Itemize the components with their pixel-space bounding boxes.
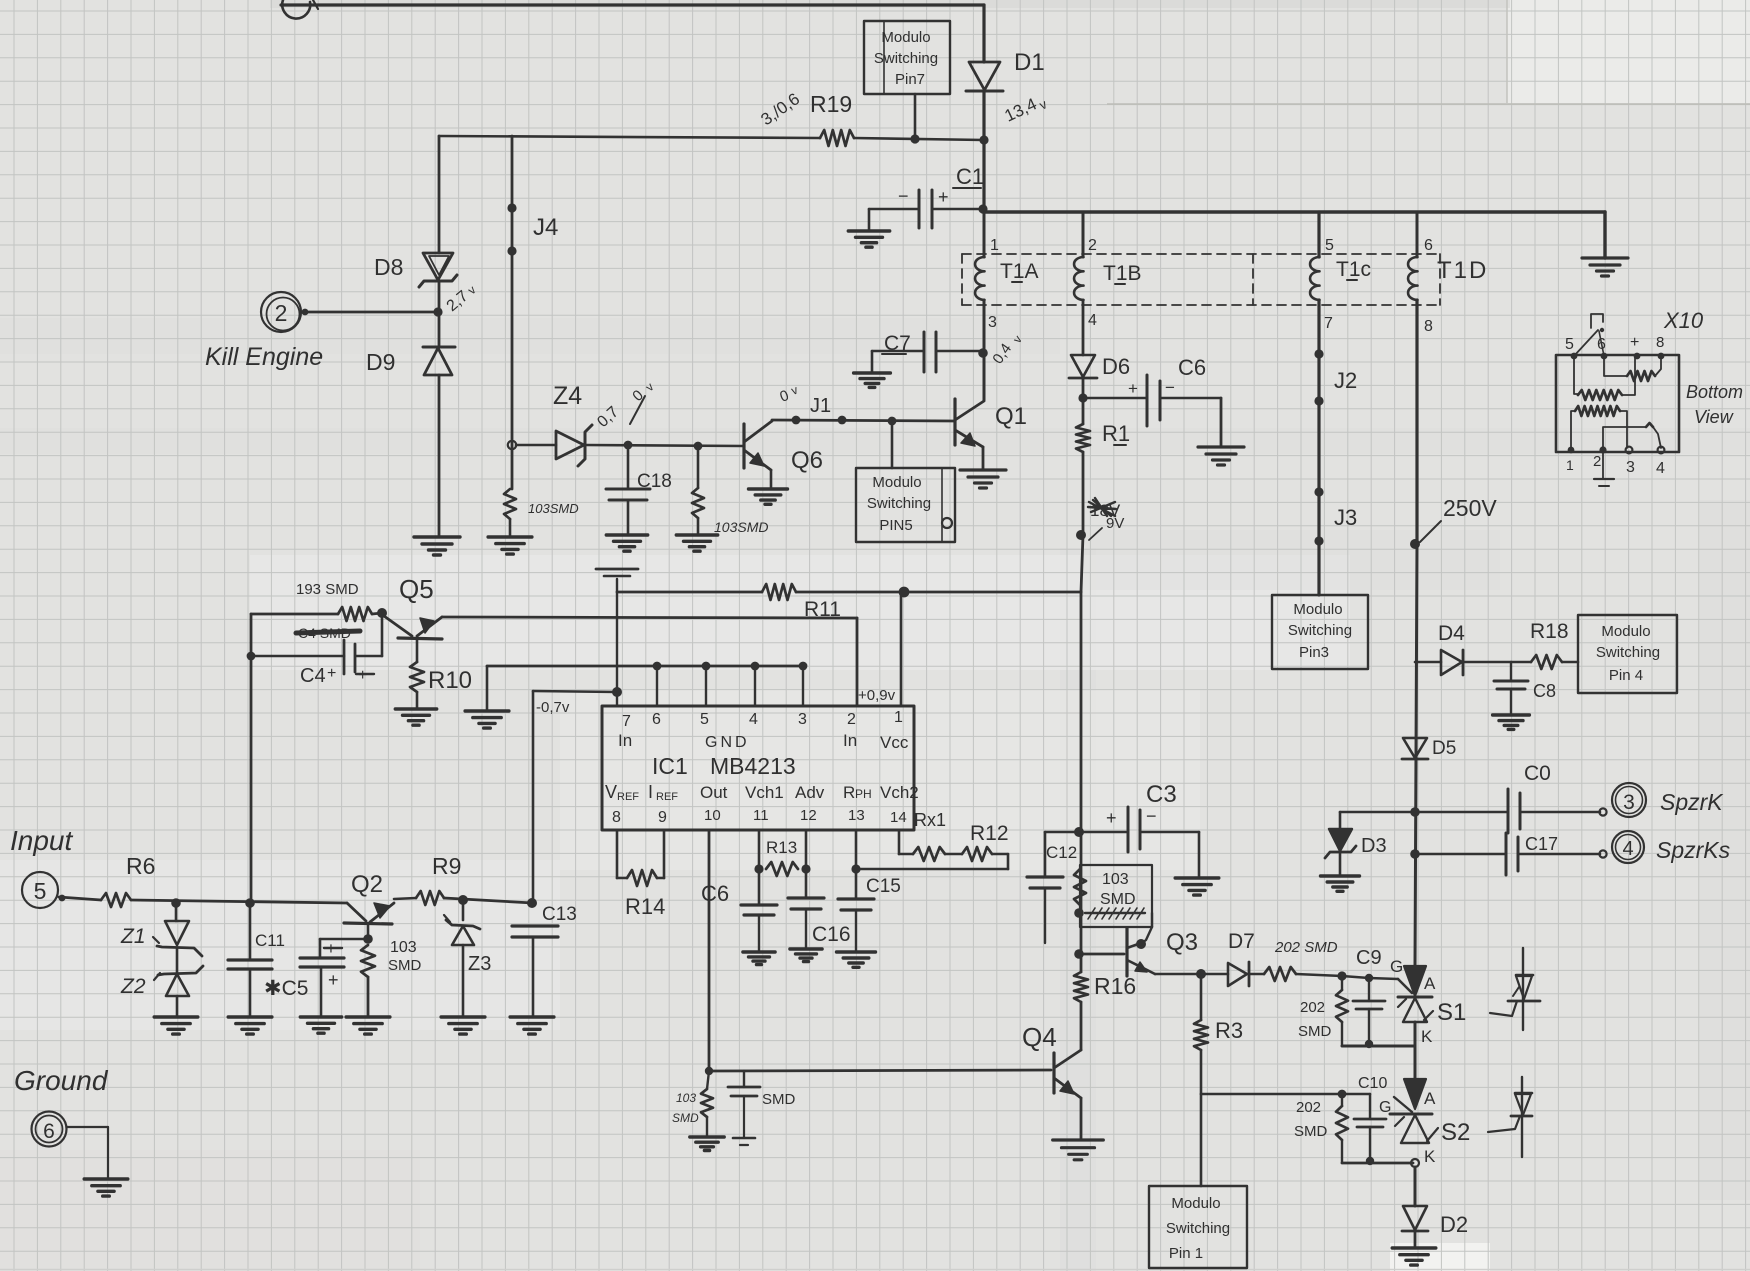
svg-text:C16: C16 — [812, 923, 851, 946]
svg-text:C13: C13 — [542, 904, 577, 925]
resistor R10 — [416, 639, 419, 662]
wire J1 to PIN5 box — [891, 421, 894, 468]
node J2 a — [1314, 349, 1323, 358]
wire bus to pin5 — [705, 666, 707, 706]
diode D6 — [1071, 355, 1095, 377]
capacitor C3 (polarized) — [1079, 831, 1126, 834]
svg-text:Switching: Switching — [867, 495, 931, 512]
svg-text:Q5: Q5 — [399, 574, 434, 604]
svg-text:IC1: IC1 — [652, 753, 688, 779]
wire pin11 stub — [758, 831, 761, 905]
svg-text:T1c: T1c — [1336, 258, 1371, 281]
wire -0,7v — [533, 691, 617, 692]
ground (C16 a) — [743, 952, 775, 965]
svg-text:T1D: T1D — [1437, 257, 1488, 284]
ground (Q2) — [346, 1017, 390, 1034]
node C17 wire — [1410, 849, 1420, 859]
svg-text:C10: C10 — [1358, 1075, 1387, 1092]
ground (Z1/Z2) — [154, 1017, 198, 1034]
svg-text:✱C5: ✱C5 — [264, 977, 308, 1000]
node pin12 — [801, 864, 810, 873]
wire S2 bottom — [1342, 1162, 1413, 1165]
box Modulo Switching Pin7 — [864, 21, 950, 94]
resistor 202 SMD (S2) — [1336, 1106, 1348, 1140]
svg-text:C12: C12 — [1046, 843, 1077, 862]
ground small (R11 corner) — [596, 568, 638, 571]
potentiometer hatched (103 SMD) — [1085, 912, 1145, 914]
svg-text:2: 2 — [1088, 237, 1097, 254]
node C4 left — [247, 652, 256, 661]
svg-text:6: 6 — [1424, 237, 1433, 254]
svg-text:Z1: Z1 — [120, 925, 146, 948]
svg-text:R: R — [843, 783, 855, 802]
svg-text:1: 1 — [894, 709, 903, 726]
svg-text:D4: D4 — [1438, 622, 1465, 645]
terminal dot (SpzrK) — [1599, 808, 1606, 815]
transistor Q2 — [347, 903, 366, 921]
svg-text:K: K — [1421, 1027, 1433, 1046]
capacitor C6 (polarized) — [1083, 397, 1146, 400]
wire R11 bus — [617, 591, 762, 594]
svg-text:Q3: Q3 — [1166, 929, 1198, 956]
wire bus end down — [1603, 212, 1606, 258]
svg-text:PIN5: PIN5 — [879, 517, 912, 534]
wire S2 to D2 — [1414, 1167, 1417, 1206]
svg-text:4: 4 — [1088, 312, 1097, 329]
ground small (SMD cap) — [733, 1137, 755, 1140]
node J1 a — [792, 416, 801, 425]
svg-text:C3: C3 — [1146, 781, 1177, 808]
diode D2 — [1403, 1206, 1427, 1230]
svg-text:In: In — [843, 731, 857, 750]
svg-text:−: − — [898, 186, 909, 206]
svg-text:Rx1: Rx1 — [914, 810, 946, 830]
svg-text:103: 103 — [1102, 871, 1129, 888]
svg-text:5: 5 — [34, 878, 47, 904]
svg-text:Vch1: Vch1 — [745, 783, 784, 802]
box Modulo Switching Pin 4 — [1578, 615, 1677, 693]
svg-text:SMD: SMD — [672, 1111, 699, 1125]
svg-text:Q2: Q2 — [351, 871, 383, 898]
wire Q3 base — [1079, 953, 1124, 956]
ground (R10) — [395, 709, 436, 725]
svg-text:Switching: Switching — [1166, 1220, 1230, 1237]
ground (C5) — [300, 1017, 341, 1033]
svg-text:R3: R3 — [1215, 1018, 1243, 1043]
terminal S2 K — [1411, 1159, 1419, 1167]
svg-text:3: 3 — [988, 314, 997, 331]
node R11/Vcc — [899, 587, 910, 598]
node 250V — [1410, 539, 1420, 549]
svg-text:R10: R10 — [428, 667, 472, 694]
wire bus to pin4 — [754, 666, 756, 706]
svg-text:C11: C11 — [255, 931, 285, 950]
node S1 cap bottom — [1365, 1040, 1373, 1048]
svg-text:C6: C6 — [701, 881, 729, 906]
svg-text:7: 7 — [622, 713, 631, 730]
svg-text:+0,9v: +0,9v — [858, 687, 896, 704]
svg-text:Switching: Switching — [1596, 644, 1660, 661]
svg-text:Q1: Q1 — [995, 403, 1027, 430]
box Modulo Switching Pin 1 — [1149, 1186, 1247, 1268]
svg-text:J2: J2 — [1334, 368, 1357, 393]
svg-text:C17: C17 — [1525, 834, 1558, 854]
svg-text:7: 7 — [1324, 315, 1333, 332]
svg-text:S1: S1 — [1437, 999, 1466, 1026]
svg-text:1: 1 — [1566, 457, 1574, 473]
ground (D2) — [1392, 1248, 1436, 1265]
node Z3 top — [458, 895, 468, 905]
svg-text:Pin 1: Pin 1 — [1169, 1245, 1203, 1262]
svg-text:View: View — [1694, 407, 1734, 427]
svg-text:+: + — [1630, 334, 1639, 351]
svg-text:5: 5 — [700, 711, 709, 728]
resistor R14 (pins 8-9) — [616, 831, 619, 878]
svg-text:+: + — [358, 667, 367, 684]
svg-text:A: A — [1424, 1089, 1436, 1108]
svg-text:J3: J3 — [1334, 505, 1357, 530]
resistor R9 — [416, 891, 444, 905]
ground (C18) — [606, 535, 647, 551]
thyristor sketch (lower) — [1521, 1077, 1523, 1157]
wire S2 gate diag — [1394, 1097, 1412, 1112]
wire gnd bus drop — [486, 666, 489, 711]
wire Q5 emitter to IC pin2 — [442, 617, 857, 618]
svg-text:G: G — [1390, 957, 1403, 976]
svg-text:In: In — [618, 731, 632, 750]
svg-text:−: − — [1165, 378, 1175, 397]
wire R12 right — [992, 853, 1008, 856]
junction node D1/C1 column — [979, 135, 988, 144]
svg-text:8: 8 — [1656, 334, 1664, 351]
wire bus to pin3 — [802, 666, 804, 706]
svg-text:D1: D1 — [1014, 49, 1045, 76]
winding X10 b — [1574, 356, 1578, 394]
wire Q2 emitter — [394, 898, 416, 899]
svg-text:Modulo: Modulo — [872, 474, 921, 491]
wire R19 left — [439, 136, 820, 138]
transistor Q6 — [742, 424, 745, 468]
svg-text:Switching: Switching — [1288, 622, 1352, 639]
node J1 b — [838, 416, 847, 425]
ground (C7) — [854, 373, 891, 387]
svg-text:C6: C6 — [1178, 355, 1206, 380]
wire ground terminal — [67, 1126, 108, 1128]
node bus pin5 — [702, 662, 711, 671]
diode D5 — [1403, 738, 1427, 758]
capacitor C15 — [838, 897, 874, 900]
svg-text:PH: PH — [855, 787, 872, 801]
wire pin7 box to R19 wire — [914, 94, 917, 139]
node Q2 collector — [363, 934, 373, 944]
wire pin13 to R12 return — [856, 868, 1008, 871]
transistor Q5 — [384, 616, 412, 636]
thyristor S1 — [1404, 966, 1426, 996]
svg-text:R18: R18 — [1530, 620, 1569, 643]
svg-text:R1: R1 — [1102, 421, 1130, 446]
ground (C8) — [1493, 715, 1530, 729]
ground (C15) — [837, 952, 876, 967]
pin dot 3 (X10) — [1626, 447, 1633, 454]
svg-text:12: 12 — [800, 807, 817, 824]
wire Kill Engine — [303, 311, 436, 314]
svg-text:Modulo: Modulo — [1601, 623, 1650, 640]
winding T1C — [1318, 212, 1321, 257]
capacitor C16 a — [741, 903, 777, 906]
svg-text:SpzrKs: SpzrKs — [1656, 837, 1731, 863]
svg-text:R6: R6 — [126, 853, 155, 879]
resistor R3 — [1200, 974, 1203, 1020]
node S2 202 top — [1338, 1090, 1347, 1099]
switch sketch (X10) — [1591, 314, 1603, 328]
svg-text:103: 103 — [676, 1091, 696, 1105]
node S1 gate wire b — [1365, 974, 1373, 982]
node J3 a — [1314, 487, 1323, 496]
svg-text:J1: J1 — [810, 395, 831, 417]
IC U1 box IC1 MB4213 — [602, 706, 914, 830]
node hatched pot — [1074, 908, 1084, 918]
node J4 a — [507, 203, 516, 212]
ground (top right) — [1582, 258, 1628, 276]
transistor Q4 — [1052, 1053, 1055, 1093]
svg-text:J4: J4 — [533, 214, 558, 241]
ground (Q6) — [749, 489, 788, 504]
node bus pin3 — [799, 662, 808, 671]
node Q3 base riser — [1074, 949, 1084, 959]
svg-text:10: 10 — [704, 807, 721, 824]
svg-text:SMD: SMD — [1298, 1023, 1332, 1040]
capacitor C11 — [249, 903, 252, 960]
node C18 branch — [624, 441, 633, 450]
svg-text:5: 5 — [1565, 336, 1574, 353]
wire J2/J3 riser — [1317, 212, 1320, 257]
wire pin13 stub — [855, 831, 858, 899]
node 9V — [1076, 530, 1086, 540]
terminal dot (SpzrKs) — [1599, 850, 1606, 857]
svg-text:2: 2 — [847, 711, 856, 728]
svg-text:Vch2: Vch2 — [880, 783, 919, 802]
box Modulo Switching Pin3 — [1272, 595, 1368, 669]
diode D7 — [1228, 963, 1247, 986]
svg-text:-0,7v: -0,7v — [536, 699, 570, 716]
svg-text:Modulo: Modulo — [1171, 1195, 1220, 1212]
svg-text:103: 103 — [390, 939, 417, 956]
svg-text:R14: R14 — [625, 894, 665, 919]
wire pin12 stub — [805, 831, 808, 898]
svg-text:REF: REF — [617, 791, 639, 803]
svg-text:250V: 250V — [1443, 495, 1497, 521]
svg-text:R9: R9 — [432, 853, 461, 879]
svg-text:R12: R12 — [970, 822, 1009, 845]
svg-text:Q6: Q6 — [791, 447, 823, 474]
pin dot 6 (X10) — [1601, 353, 1608, 360]
capacitor SMD (Q4 base) — [743, 1071, 745, 1087]
svg-text:3: 3 — [1623, 791, 1635, 814]
capacitor C18 — [627, 445, 630, 489]
node pin11 — [754, 864, 763, 873]
wire R1 down — [1082, 452, 1085, 535]
pin dot 8 (X10) — [1658, 353, 1665, 360]
transistor Q3 — [1125, 928, 1128, 976]
resistor R11 — [762, 584, 796, 600]
svg-text:SMD: SMD — [1294, 1123, 1328, 1140]
svg-text:C1: C1 — [956, 164, 984, 189]
node D8/D9 — [433, 307, 442, 316]
svg-text:A: A — [1424, 974, 1436, 993]
svg-text:5: 5 — [1325, 237, 1334, 254]
resistor 103SMD (J4) — [504, 489, 516, 519]
svg-text:C7: C7 — [884, 332, 911, 355]
svg-text:+: + — [1106, 808, 1117, 828]
wire R16 to Q4 — [1080, 1002, 1083, 1050]
wire R3 to Pin1 box — [1200, 1094, 1203, 1186]
ground (terminal 6) — [84, 1179, 128, 1196]
node Q3 collector — [1136, 939, 1146, 949]
circled 2 terminal — [261, 292, 301, 332]
junction node at pin7 stub — [910, 134, 919, 143]
winding X10 c — [1571, 411, 1575, 448]
wire pin10 / C6 riser — [708, 831, 711, 1071]
wire riser to input line — [532, 691, 535, 903]
capacitor C9 — [1368, 978, 1370, 1001]
resistor R1 — [1076, 424, 1090, 452]
svg-text:4: 4 — [749, 711, 758, 728]
pin dot 4 (X10) — [1658, 447, 1665, 454]
node C7 right — [978, 348, 988, 358]
wire C4 right riser — [381, 613, 384, 656]
wire top secondary bus — [983, 210, 1605, 213]
svg-text:D5: D5 — [1432, 738, 1456, 759]
node 103SMD branch — [694, 442, 703, 451]
svg-text:Ground: Ground — [14, 1065, 109, 1096]
svg-text:Input: Input — [10, 825, 73, 856]
box 103 SMD (R) — [1080, 865, 1152, 927]
wire left riser to input — [250, 614, 253, 902]
svg-text:S2: S2 — [1441, 1119, 1470, 1146]
svg-text:6: 6 — [652, 711, 661, 728]
wire T1A pin3 down — [983, 300, 986, 353]
capacitor C0 — [1415, 811, 1507, 814]
thyristor sketch (upper) — [1522, 948, 1524, 1030]
svg-text:SpzrK: SpzrK — [1660, 789, 1724, 815]
node D6/C6 — [1078, 393, 1087, 402]
pin circle (PIN5 box) — [942, 518, 952, 528]
wire R11 right — [796, 591, 1081, 594]
svg-text:9V: 9V — [1106, 515, 1124, 532]
svg-text:D2: D2 — [1440, 1212, 1468, 1237]
transistor Q1 — [953, 399, 956, 445]
node Q4 base / pin10 — [705, 1067, 713, 1075]
wire J4 riser — [511, 136, 514, 489]
ground (gnd bus) — [465, 711, 509, 728]
node Z1 top — [171, 898, 181, 908]
capacitor C8 — [1510, 662, 1512, 681]
node bus pin6 — [653, 662, 662, 671]
svg-text:Vcc: Vcc — [880, 733, 909, 752]
resistor 103 SMD (Q2) — [361, 945, 375, 977]
svg-text:+: + — [328, 970, 339, 990]
node pin13 — [851, 864, 860, 873]
node C11 top — [245, 898, 255, 908]
resistor Rx1 — [913, 847, 945, 861]
thyristor S2 — [1404, 1079, 1426, 1109]
svg-text:GND: GND — [705, 734, 750, 751]
svg-text:SMD: SMD — [1100, 891, 1136, 908]
svg-text:103SMD: 103SMD — [714, 519, 768, 535]
ground (D3) — [1321, 876, 1360, 891]
capacitor C5 (polarized) — [320, 938, 366, 941]
capacitor C10 — [1369, 1094, 1371, 1119]
wire R19 right — [854, 138, 984, 140]
ground (Q1) — [960, 470, 1006, 488]
svg-text:R13: R13 — [766, 838, 797, 857]
wire left riser top — [438, 136, 441, 253]
svg-text:+: + — [938, 187, 949, 207]
resistor R16 — [1074, 972, 1088, 1002]
wire Q4 base long — [709, 1070, 1051, 1071]
ground (C3) — [1175, 878, 1219, 895]
node S2 cap bottom — [1366, 1157, 1374, 1165]
resistor 103 SMD (pin10) — [707, 1071, 709, 1089]
svg-text:4: 4 — [1656, 460, 1665, 477]
svg-text:Modulo: Modulo — [1293, 601, 1342, 618]
wire Rx1-R12 — [945, 853, 962, 856]
circled 3 terminal — [1612, 783, 1646, 817]
svg-text:Z3: Z3 — [468, 953, 491, 975]
svg-text:Pin 4: Pin 4 — [1609, 667, 1643, 684]
node S1 gate wire a — [1337, 971, 1346, 980]
svg-text:X10: X10 — [1663, 308, 1704, 333]
capacitor C17 — [1415, 853, 1505, 856]
svg-text:Adv: Adv — [795, 783, 825, 802]
winding T1D — [1416, 212, 1419, 257]
svg-text:Modulo: Modulo — [881, 29, 930, 46]
diode D3 (zener) — [1340, 811, 1415, 814]
svg-text:Q4: Q4 — [1022, 1022, 1057, 1052]
wire top bus — [281, 3, 984, 6]
wire 193SMD right — [372, 613, 382, 614]
svg-text:I: I — [648, 782, 653, 802]
svg-text:R11: R11 — [804, 598, 841, 621]
diode Z3 (zener) — [462, 900, 465, 920]
capacitor C4 — [356, 655, 382, 658]
resistor R19 — [820, 130, 854, 146]
wire S1 gate — [1342, 976, 1369, 978]
svg-text:C8: C8 — [1533, 681, 1556, 701]
winding X10 d — [1603, 427, 1646, 448]
ground (D8/D9 chain) — [414, 537, 460, 555]
wire pin14 stub — [898, 831, 901, 854]
svg-text:T1B: T1B — [1103, 262, 1142, 285]
capacitor C12 — [1045, 831, 1079, 834]
wire 193SMD left — [251, 613, 338, 616]
node J2 b — [1314, 396, 1323, 405]
svg-text:−: − — [1146, 806, 1157, 826]
diode D4 — [1415, 661, 1441, 664]
resistor 103 SMD vertical — [1074, 869, 1086, 905]
resistor R6 — [101, 893, 131, 907]
resistor 202 SMD (gate S1) — [1264, 967, 1296, 981]
wire to Z4 — [516, 444, 556, 447]
node -0,7v — [612, 687, 622, 697]
resistor R18 — [1531, 655, 1562, 669]
pin dot 1 (X10) — [1568, 447, 1575, 454]
diode Z4 (zener) — [556, 431, 584, 459]
connector X10 outline — [1556, 355, 1679, 452]
wire to D7 — [1201, 973, 1228, 976]
node J1 c — [888, 417, 897, 426]
wire J1 — [772, 420, 955, 421]
